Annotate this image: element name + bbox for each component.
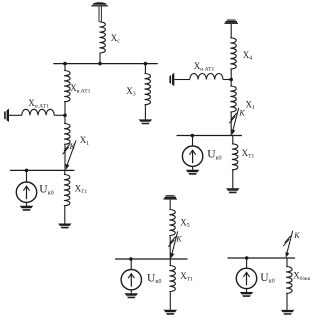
wire X1 to bus2 — [64, 144, 66, 170]
ground under X3 — [139, 119, 152, 124]
fault marker K3 — [168, 231, 178, 258]
node dot AT1 mid — [63, 114, 67, 118]
wire node to X2 — [230, 80, 232, 87]
node dot busD/source — [245, 256, 249, 260]
node dot bus1/Xc — [98, 62, 102, 66]
ground under XТ1c — [164, 310, 177, 315]
fault marker K1 — [63, 140, 77, 169]
ground under XТ1a — [58, 224, 71, 229]
svg-text:XТ1: XТ1 — [180, 271, 193, 283]
bus 2 — [10, 169, 75, 171]
svg-text:Xв.АТ1: Xв.АТ1 — [70, 83, 90, 95]
reactor XТ1 (a) — [64, 175, 70, 206]
reactor XнАТ2 — [190, 73, 223, 79]
svg-text:Uк0: Uк0 — [260, 272, 274, 285]
wire ground to XнАТ1 — [9, 114, 22, 116]
source Uк0 (3) — [121, 270, 141, 299]
wire ground to XнАТ2 — [174, 79, 190, 81]
node dot bus1 left — [63, 62, 67, 66]
node dot busB/source — [191, 134, 195, 138]
fault marker K2 — [229, 108, 239, 135]
svg-text:K: K — [293, 231, 300, 240]
svg-text:K: K — [175, 235, 182, 244]
wire busB to source2 — [192, 136, 194, 147]
svg-text:XТ1: XТ1 — [242, 148, 255, 160]
svg-text:Xс: Xс — [111, 33, 121, 45]
wire Xc to bus1 — [99, 53, 101, 64]
system symbol (middle T) — [163, 195, 177, 199]
source Uк0 (1) — [16, 182, 36, 211]
svg-text:X1: X1 — [246, 100, 256, 112]
wire bus1 to XвАТ1 — [64, 64, 66, 71]
wire XнАТ2 to node — [223, 79, 231, 81]
reactor XТ1 (c) — [169, 266, 175, 292]
wire XТ1a to ground — [64, 206, 66, 224]
reactor XвАТ1 — [64, 71, 70, 102]
bus C — [115, 258, 188, 260]
node dot bus1/X3 — [144, 62, 148, 66]
svg-text:Uк0: Uк0 — [207, 149, 221, 162]
wire busC to source3 — [130, 259, 132, 270]
source Uк0 (2) — [182, 146, 202, 175]
svg-text:XТ1: XТ1 — [75, 184, 88, 196]
reactor XнАТ1 — [22, 109, 54, 115]
svg-text:Xн.АТ1: Xн.АТ1 — [28, 98, 49, 110]
reactor X4 — [230, 38, 236, 69]
system symbol (top-left dome) — [91, 2, 107, 22]
wire tsym to X5 — [169, 200, 171, 210]
ground under X0экв — [281, 310, 294, 315]
ground left of XнАТ2 — [169, 73, 174, 86]
wire XнАТ1 to mid node — [54, 114, 65, 116]
wire busB to XТ1b — [232, 136, 234, 144]
reactor X2 — [230, 86, 236, 112]
wire X5 to busC — [169, 236, 171, 260]
wire mid node to X1 — [64, 115, 66, 123]
wire busD to source4 — [246, 258, 248, 268]
node dot busC/source — [129, 257, 133, 261]
reactor X1 — [64, 124, 70, 145]
svg-text:X3: X3 — [126, 86, 136, 98]
node dot AT2 mid — [229, 78, 233, 82]
system symbol (top-right T) — [224, 20, 238, 24]
reactor X3 — [145, 64, 151, 105]
svg-text:Uк0: Uк0 — [39, 184, 53, 197]
wire X2 to busB — [230, 112, 232, 136]
svg-text:X1: X1 — [80, 135, 90, 147]
reactor X0экв — [286, 267, 292, 294]
source Uк0 (4) — [236, 268, 256, 297]
wire XТ1b to ground — [232, 170, 234, 189]
reactor XТ1 (b) — [232, 144, 238, 170]
wire X0экв to ground — [286, 294, 288, 310]
svg-text:X4: X4 — [243, 50, 253, 62]
reactor Xc — [99, 22, 105, 53]
svg-text:X0экв: X0экв — [293, 271, 310, 283]
wire busD to X0экв — [286, 258, 288, 267]
reactor X5 — [169, 210, 175, 236]
ground left of XнАТ1 — [4, 109, 9, 122]
bus B — [177, 135, 243, 137]
wire X4 to node — [230, 69, 232, 80]
wire tsym to X4 — [230, 24, 232, 38]
bus D — [228, 257, 296, 259]
svg-text:K: K — [238, 108, 245, 117]
node dot bus2/source — [25, 169, 29, 173]
svg-text:Xн.АТ1: Xн.АТ1 — [194, 61, 215, 73]
wire XТ1c to ground — [169, 292, 171, 310]
fault marker K4 — [283, 231, 293, 258]
wire busC to XТ1c — [169, 259, 171, 266]
wire XвАТ1 to mid node — [64, 102, 66, 116]
ground under XТ1b — [226, 188, 239, 193]
wire bus2 to XТ1a — [64, 170, 66, 174]
svg-text:X5: X5 — [180, 217, 190, 229]
wire bus2 to source1 — [26, 170, 28, 182]
svg-text:K: K — [69, 142, 76, 151]
wire X3 to ground — [144, 105, 146, 120]
svg-text:Uк0: Uк0 — [147, 272, 161, 285]
bus 1 (110kV) — [53, 63, 158, 65]
